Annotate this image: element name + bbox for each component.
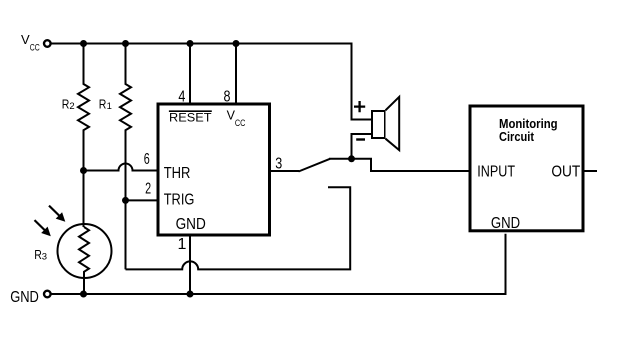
svg-text:INPUT: INPUT <box>477 164 515 181</box>
svg-text:3: 3 <box>42 252 47 263</box>
wire 555 GND pin1 <box>189 235 191 294</box>
speaker cone <box>386 97 400 150</box>
terminal GND <box>44 291 51 298</box>
LDR zigzag <box>79 227 89 294</box>
arrow light 2 shaft <box>35 220 47 232</box>
wire LDR column <box>83 171 85 228</box>
svg-text:TRIG: TRIG <box>164 191 195 208</box>
arrow light 2 head <box>41 227 51 237</box>
svg-text:OUT: OUT <box>551 164 580 181</box>
wire top rail Vcc <box>52 43 352 45</box>
box monitoring circuit <box>470 106 583 231</box>
switch arm <box>299 159 331 172</box>
node dot top pin8 <box>233 40 240 47</box>
svg-text:8: 8 <box>224 88 231 105</box>
wire feedback bottom with hop over pin1 <box>126 187 351 269</box>
svg-text:2: 2 <box>69 101 74 112</box>
wire switch to monitoring input <box>352 159 469 171</box>
wire TRIG <box>126 199 158 201</box>
overline RESET <box>169 110 212 112</box>
op box 555 <box>158 104 270 235</box>
speaker minus sign <box>356 138 365 140</box>
wire monitoring OUT stub <box>585 170 598 172</box>
node dot top R2 <box>80 40 87 47</box>
node dot THR junction <box>80 167 87 174</box>
wire switch contact <box>329 158 352 160</box>
svg-text:CC: CC <box>235 118 246 128</box>
svg-text:THR: THR <box>164 165 191 182</box>
resistor R2 <box>78 44 89 171</box>
svg-text:GND: GND <box>176 216 206 233</box>
svg-text:RESET: RESET <box>169 111 212 125</box>
svg-text:4: 4 <box>178 88 185 105</box>
speaker driver rectangle <box>372 111 385 138</box>
wire pin8 <box>235 44 237 104</box>
wire bottom rail <box>52 234 506 294</box>
node dot bottom pin1 <box>187 291 194 298</box>
svg-text:GND: GND <box>10 289 39 306</box>
wire speaker plus drop <box>352 43 372 120</box>
node dot TRIG junction <box>122 197 129 204</box>
svg-text:3: 3 <box>275 156 282 173</box>
svg-text:1: 1 <box>107 101 112 112</box>
speaker plus sign <box>354 101 365 112</box>
LDR circle R3 <box>58 224 112 278</box>
svg-text:Monitoring: Monitoring <box>499 117 558 131</box>
svg-text:2: 2 <box>145 181 151 198</box>
node dot top R1 <box>122 40 129 47</box>
svg-text:V: V <box>21 32 30 47</box>
svg-text:R: R <box>99 97 107 112</box>
node dot bottom LDR <box>80 291 87 298</box>
svg-text:R: R <box>34 247 42 262</box>
node dot switch junction <box>348 155 355 162</box>
svg-text:GND: GND <box>491 215 520 232</box>
svg-text:CC: CC <box>30 43 40 53</box>
resistor R1 <box>120 44 131 270</box>
wire speaker minus <box>352 134 372 159</box>
svg-text:Circuit: Circuit <box>499 130 535 144</box>
wire THR with hop over R1 column <box>84 164 158 171</box>
arrow light 1 shaft <box>49 206 61 218</box>
arrow light 1 head <box>56 212 66 222</box>
terminal Vcc <box>44 40 51 47</box>
svg-text:R: R <box>62 97 70 112</box>
node dot top pin4 <box>187 40 194 47</box>
svg-text:6: 6 <box>144 151 150 168</box>
wire pin4 <box>189 44 191 104</box>
svg-text:1: 1 <box>178 236 187 253</box>
wire pin3 <box>271 170 299 172</box>
